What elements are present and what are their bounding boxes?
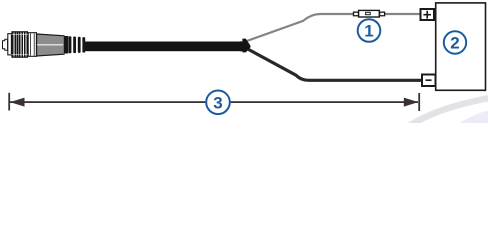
svg-text:3: 3 xyxy=(213,93,222,112)
svg-text:2: 2 xyxy=(450,34,459,53)
svg-text:1: 1 xyxy=(364,22,373,41)
